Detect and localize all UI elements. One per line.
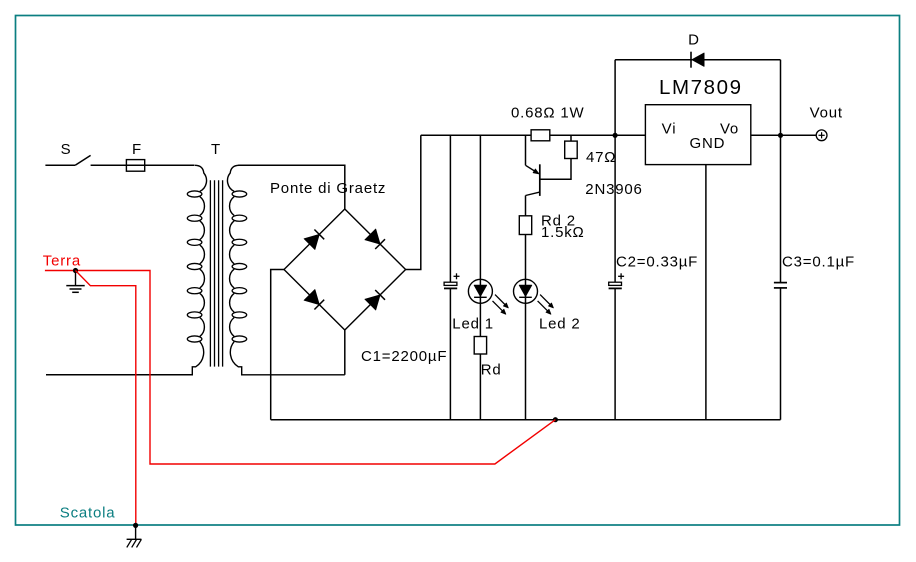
LED Led 2 bbox=[514, 279, 554, 314]
svg-text:D: D bbox=[688, 32, 700, 49]
label Rd bbox=[481, 362, 502, 379]
wire C3 / diode right leg bbox=[780, 60, 782, 283]
wire 47ohm top bbox=[570, 135, 572, 141]
label Ponte di Graetz bbox=[270, 180, 386, 197]
label Scatola bbox=[60, 505, 116, 522]
label Rd 2 bbox=[541, 213, 576, 230]
svg-text:Led 2: Led 2 bbox=[539, 316, 581, 333]
node junction Terra bbox=[73, 268, 78, 273]
svg-text:Vout: Vout bbox=[810, 105, 843, 122]
svg-text:GND: GND bbox=[690, 135, 726, 152]
label pin GND bbox=[690, 135, 726, 152]
capacitor C2 0.33uF bbox=[609, 273, 625, 288]
label Terra bbox=[43, 253, 81, 270]
resistor 47ohm bbox=[565, 141, 578, 158]
transformer T primary loops bbox=[187, 191, 202, 342]
wire Rd to ground rail bbox=[479, 354, 481, 420]
label C3=0.1uF bbox=[782, 254, 855, 271]
label C1=2200uF bbox=[361, 348, 447, 365]
svg-text:Led 1: Led 1 bbox=[452, 316, 494, 333]
label 1.5kohm bbox=[541, 224, 585, 241]
wire C1 bottom bbox=[449, 288, 451, 419]
wire mains line input bbox=[45, 164, 75, 166]
transformer T secondary loops bbox=[232, 191, 247, 342]
diode D bbox=[691, 52, 704, 68]
ground earth symbol bbox=[66, 271, 84, 293]
label Vout bbox=[810, 105, 843, 122]
op-amp U1 LM7809 body bbox=[645, 105, 750, 165]
label 47 ohm bbox=[586, 149, 616, 166]
label T bbox=[211, 141, 221, 158]
wire top rail (bridge to R 0.68) bbox=[421, 134, 531, 136]
wire secondary top to bridge bbox=[238, 165, 345, 209]
wire collector to Rd2 bbox=[525, 196, 527, 216]
transformer T primary winding bbox=[46, 165, 207, 374]
svg-text:Terra: Terra bbox=[43, 253, 81, 270]
svg-text:C3=0.1µF: C3=0.1µF bbox=[782, 254, 855, 271]
wire earth red to ground rail bbox=[45, 271, 556, 465]
wire ground rail bbox=[271, 419, 781, 421]
wire Vo to output bbox=[751, 134, 816, 136]
label F bbox=[132, 141, 142, 158]
label LM7809 bbox=[659, 76, 743, 99]
svg-text:Ponte di Graetz: Ponte di Graetz bbox=[270, 180, 386, 197]
diode bridge D2 (top-right) bbox=[365, 229, 385, 249]
label 0.68 ohm 1W bbox=[511, 105, 585, 122]
label C2=0.33uF bbox=[616, 254, 698, 271]
terminal Vout bbox=[816, 130, 827, 141]
label pin Vi bbox=[662, 120, 677, 137]
label S bbox=[61, 141, 72, 158]
wire 47ohm to base bbox=[540, 159, 571, 180]
label pin Vo bbox=[720, 120, 739, 137]
capacitor C1 2200uF bbox=[444, 273, 460, 288]
node junction Vo / C3 / diode D bbox=[778, 133, 783, 138]
node junction ground rail / earth wire bbox=[553, 417, 558, 422]
svg-text:Vi: Vi bbox=[662, 120, 677, 137]
LED Led 1 bbox=[468, 279, 508, 314]
ground chassis symbol bbox=[127, 525, 142, 547]
svg-text:F: F bbox=[132, 141, 142, 158]
svg-text:T: T bbox=[211, 141, 221, 158]
wire C3 bottom bbox=[780, 288, 782, 420]
node junction top rail / C2 / diode D bbox=[613, 133, 618, 138]
wire emitter tap bbox=[525, 135, 527, 165]
transformer T core bbox=[210, 180, 222, 366]
svg-text:Scatola: Scatola bbox=[60, 505, 116, 522]
transistor Q1 2N3906 bbox=[526, 164, 540, 196]
wire switch to fuse bbox=[91, 164, 195, 166]
wire Led1 top bbox=[479, 135, 481, 336]
switch S bbox=[75, 155, 90, 165]
svg-text:Rd: Rd bbox=[481, 362, 502, 379]
wire diode D top bbox=[615, 59, 780, 61]
wire C2 bottom bbox=[614, 288, 616, 419]
svg-text:0.68Ω 1W: 0.68Ω 1W bbox=[511, 105, 585, 122]
diode bridge D3 (left-bottom) bbox=[304, 290, 324, 310]
svg-text:C1=2200µF: C1=2200µF bbox=[361, 348, 447, 365]
wire bridge diamond bbox=[284, 209, 406, 330]
wire bridge minus to ground rail bbox=[271, 270, 284, 420]
label D bbox=[688, 32, 700, 49]
capacitor C3 0.1uF bbox=[774, 283, 787, 288]
label 2N3906 bbox=[585, 181, 642, 198]
svg-text:C2=0.33µF: C2=0.33µF bbox=[616, 254, 698, 271]
diode bridge D4 (bottom-right) bbox=[365, 290, 385, 310]
wire Rd2 to Led2 bbox=[525, 235, 527, 420]
svg-text:47Ω: 47Ω bbox=[586, 149, 616, 166]
svg-text:LM7809: LM7809 bbox=[659, 76, 743, 99]
svg-text:1.5kΩ: 1.5kΩ bbox=[541, 224, 585, 241]
resistor Rd 2 1.5k bbox=[519, 216, 531, 235]
wire bridge plus to top rail bbox=[406, 135, 421, 269]
wire earth red to chassis bbox=[76, 271, 136, 526]
label Led 1 bbox=[452, 316, 494, 333]
wire regulator GND pin bbox=[705, 165, 707, 420]
diode bridge D1 (left-top) bbox=[304, 230, 324, 250]
wire C2 / diode left leg bbox=[614, 60, 616, 283]
transformer T secondary winding bbox=[227, 165, 344, 374]
wire top rail (R 0.68 to regulator Vi) bbox=[550, 134, 646, 136]
node junction Scatola chassis bbox=[133, 523, 138, 528]
wire C1 top bbox=[449, 135, 451, 282]
svg-text:2N3906: 2N3906 bbox=[585, 181, 642, 198]
svg-text:S: S bbox=[61, 141, 72, 158]
resistor 0.68ohm 1W bbox=[531, 130, 550, 141]
fuse F bbox=[126, 160, 144, 172]
wire bridge bottom vertex bbox=[344, 330, 346, 375]
resistor Rd bbox=[474, 337, 486, 355]
label Led 2 bbox=[539, 316, 581, 333]
wire mains return (bottom left) bbox=[46, 374, 192, 376]
